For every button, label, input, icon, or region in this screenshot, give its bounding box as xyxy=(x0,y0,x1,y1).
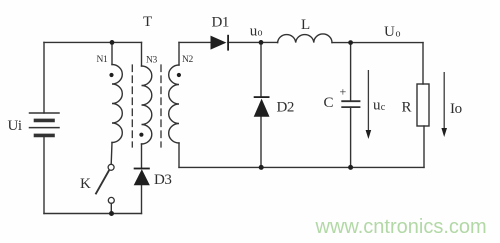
wire battery to bottom rail xyxy=(43,137,45,214)
svg-text:o: o xyxy=(258,28,263,39)
wire D2 branch upper xyxy=(260,42,262,97)
winding N2 xyxy=(169,65,179,143)
svg-text:Io: Io xyxy=(450,101,462,117)
capacitor C xyxy=(342,101,359,107)
wire N3 to D3 xyxy=(141,144,143,168)
arrow uc xyxy=(366,70,372,139)
junction node C bottom xyxy=(348,165,353,170)
wire D2 branch lower xyxy=(260,117,262,168)
wire D3 to bottom rail xyxy=(141,185,143,213)
wire N1 bottom lead xyxy=(110,143,113,165)
diode D1 xyxy=(211,36,227,50)
wire Uo corner down to R xyxy=(422,43,424,84)
transformer core dashed line left xyxy=(131,65,133,147)
svg-text:C: C xyxy=(324,95,334,111)
junction node at N1 top xyxy=(110,40,115,45)
wire R to bottom rail xyxy=(423,126,425,167)
polarity dot N1 xyxy=(109,73,113,77)
inductor L xyxy=(278,34,332,43)
junction node D2 bottom xyxy=(259,165,264,170)
winding N3 xyxy=(142,66,152,144)
transformer core dashed line right xyxy=(160,65,162,147)
wire N3 top lead xyxy=(141,42,143,66)
polarity dot N2 xyxy=(177,73,181,77)
junction node K bottom xyxy=(109,211,114,216)
svg-text:R: R xyxy=(402,100,412,116)
winding N1 xyxy=(112,65,122,143)
wire C branch upper xyxy=(350,43,352,101)
diode D2 xyxy=(254,99,270,117)
svg-text:N1: N1 xyxy=(97,55,109,65)
wire D1 to node uo xyxy=(228,41,278,43)
diode D3 xyxy=(134,169,150,185)
switch K xyxy=(96,164,114,203)
wire bottom-left rail xyxy=(44,213,142,215)
svg-text:K: K xyxy=(80,176,91,192)
wire N2 bottom lead xyxy=(178,143,180,167)
svg-text:www.cntronics.com: www.cntronics.com xyxy=(315,216,487,238)
wire secondary bottom rail xyxy=(179,166,424,168)
junction node uo xyxy=(259,40,264,45)
battery Ui xyxy=(30,113,60,135)
svg-text:+: + xyxy=(340,85,347,99)
svg-text:D3: D3 xyxy=(154,172,172,188)
wire N1 top lead xyxy=(111,42,113,64)
svg-text:Ui: Ui xyxy=(8,118,22,134)
svg-text:c: c xyxy=(381,102,386,113)
svg-text:D2: D2 xyxy=(277,100,295,116)
wire C branch lower xyxy=(350,107,352,167)
junction node after L xyxy=(348,40,353,45)
wire switch to bottom rail xyxy=(110,203,112,213)
wire L to Uo corner xyxy=(332,42,423,44)
wire N2 top to D1 xyxy=(179,41,210,43)
polarity dot N3 xyxy=(139,133,143,137)
wire left rail xyxy=(43,42,45,113)
svg-text:D1: D1 xyxy=(212,15,230,31)
resistor R xyxy=(417,84,429,126)
svg-text:o: o xyxy=(396,29,401,40)
svg-text:L: L xyxy=(301,17,310,33)
svg-text:N2: N2 xyxy=(182,55,194,65)
svg-text:T: T xyxy=(143,14,152,30)
svg-text:N3: N3 xyxy=(146,56,158,66)
arrow Io xyxy=(441,72,447,137)
wire top-left horizontal xyxy=(44,41,142,43)
svg-text:U: U xyxy=(384,24,395,40)
wire N2 top lead xyxy=(178,42,180,65)
